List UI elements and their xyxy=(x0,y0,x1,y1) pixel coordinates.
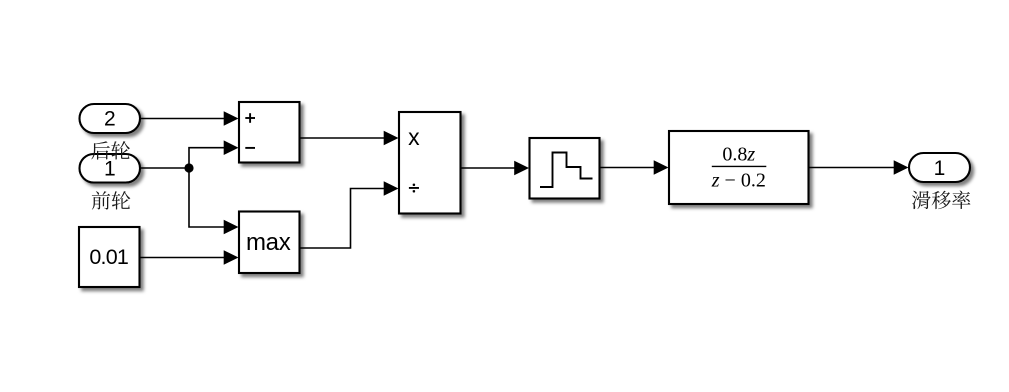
wire product to ZOH xyxy=(461,167,516,169)
fraction bar xyxy=(712,165,767,167)
svg-text:x: x xyxy=(408,124,420,150)
wire inport1 to branch node xyxy=(140,167,189,169)
outport 1 (oval) xyxy=(909,153,970,182)
svg-text:1: 1 xyxy=(104,157,116,180)
product/divide block xyxy=(399,112,461,214)
sum plus sign xyxy=(245,113,255,123)
label text 前轮 xyxy=(92,191,131,210)
wire max to product divide xyxy=(300,189,386,249)
max block xyxy=(239,212,300,274)
svg-text:0.01: 0.01 xyxy=(89,245,128,269)
wire transfer fn to outport xyxy=(809,167,895,169)
svg-text:max: max xyxy=(246,229,291,256)
constant block 0.01 xyxy=(79,227,140,287)
wire ZOH to transfer fn xyxy=(600,167,656,169)
staircase icon xyxy=(540,153,593,188)
svg-text:z − 0.2: z − 0.2 xyxy=(711,170,766,192)
wire constant to max in2 xyxy=(140,257,226,259)
wire inport2 to sum + xyxy=(140,118,225,120)
inport 2 (oval) xyxy=(80,104,141,133)
svg-text:0.8z: 0.8z xyxy=(722,144,755,166)
wire branch up to sum - xyxy=(189,148,225,168)
zero-order hold block xyxy=(530,138,600,199)
label text 滑移率 xyxy=(912,191,970,210)
wire branch down to max in1 xyxy=(189,168,225,227)
svg-text:2: 2 xyxy=(104,107,116,130)
branch node dot xyxy=(184,163,193,172)
sum minus sign xyxy=(245,147,255,149)
sum block xyxy=(239,102,300,163)
discrete transfer function block 0.8z/(z-0.2) xyxy=(669,131,809,204)
inport 1 (oval) xyxy=(80,154,141,183)
label text 后轮 xyxy=(91,141,130,160)
svg-text:1: 1 xyxy=(934,157,946,180)
wire sum to product x xyxy=(300,137,386,139)
